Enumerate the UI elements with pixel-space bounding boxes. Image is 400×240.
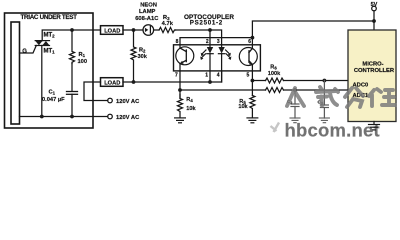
neon lamp 608-A1C: [143, 25, 154, 36]
rail ADC0 from pin5: [252, 80, 265, 82]
svg-text:3: 3: [217, 39, 220, 45]
node 5V: [372, 19, 376, 23]
svg-text:G: G: [22, 49, 27, 55]
svg-text:5: 5: [247, 73, 250, 79]
capacitor C3: [319, 81, 329, 123]
resistor R2 30k: [131, 30, 136, 82]
char ru: [287, 88, 304, 106]
wire gate: [20, 45, 37, 53]
svg-text:608-A1C: 608-A1C: [135, 16, 159, 22]
terminal 120V AC lower: [108, 114, 113, 119]
opto phototransistor right U1b: [239, 48, 257, 66]
LOAD box 1: [101, 26, 124, 35]
svg-text:C1: C1: [49, 90, 56, 96]
wire pin7 down: [179, 71, 181, 99]
node C2 top: [293, 88, 297, 92]
LOAD box 2: [101, 78, 124, 87]
svg-text:10k: 10k: [238, 104, 248, 110]
svg-text:TRIAC UNDER TEST: TRIAC UNDER TEST: [21, 14, 78, 21]
resistor R5 10k: [250, 96, 255, 118]
triac socket inner rectangle: [11, 22, 20, 124]
wire R3 to pin2/pin3 corner: [176, 30, 222, 47]
opto LED 1: [207, 47, 213, 54]
svg-text:R1: R1: [79, 52, 86, 58]
capacitor C1: [67, 91, 78, 93]
char she: [369, 89, 395, 106]
triac Q under test: [35, 41, 49, 46]
rail ADC1 from R4 node: [180, 89, 266, 91]
resistor R6 100k: [266, 78, 284, 83]
svg-text:10k: 10k: [186, 106, 196, 112]
wire lamp to R3: [154, 29, 159, 31]
node MT1 bottom: [40, 115, 44, 119]
rail LED cathodes to LOAD2/R2: [123, 71, 222, 82]
optocoupler box PS2501-2: [174, 45, 261, 71]
svg-text:30k: 30k: [138, 54, 148, 60]
svg-text:100: 100: [78, 59, 88, 65]
wire R6 to ADC0: [284, 80, 349, 82]
svg-text:7: 7: [175, 72, 178, 78]
resistor R7: [266, 88, 284, 93]
5V terminal: [372, 6, 377, 11]
node junction R1 top: [70, 28, 74, 32]
node C3 top: [323, 79, 327, 83]
watermark row 2: nbcom.net: [271, 120, 380, 141]
svg-text:R6: R6: [270, 65, 277, 71]
node junction R2 top: [132, 28, 136, 32]
node pin1: [208, 80, 212, 84]
ground R5: [247, 118, 258, 123]
char gong: [345, 88, 363, 107]
svg-text:6: 6: [248, 39, 251, 45]
resistor R1 100: [70, 30, 75, 64]
ground R4: [175, 118, 186, 123]
wire R1 to C1: [71, 64, 73, 92]
svg-text:R4: R4: [186, 97, 193, 103]
svg-text:MICRO-: MICRO-: [362, 62, 383, 68]
watermark row 1: CJK characters approximated with strokes: [287, 87, 395, 107]
wire AC1 to LOAD2: [84, 82, 108, 101]
svg-text:CONTROLLER: CONTROLLER: [354, 68, 395, 74]
wire 5V rail to pin6: [252, 21, 374, 48]
svg-text:1: 1: [205, 72, 208, 78]
svg-text:PS2501-2: PS2501-2: [190, 20, 223, 27]
svg-text:LOAD: LOAD: [104, 29, 120, 35]
wire LOAD1 to lamp: [123, 29, 143, 31]
wire pin5 down with node to R6: [251, 71, 253, 96]
svg-text:NEON: NEON: [140, 2, 157, 8]
opto LED 2: [218, 47, 224, 54]
resistor R3 4.7k: [159, 27, 176, 32]
terminal 120V AC upper: [108, 98, 113, 103]
svg-text:MT1: MT1: [44, 48, 56, 54]
capacitor C2: [290, 90, 300, 123]
svg-text:8: 8: [176, 39, 179, 45]
svg-text:LAMP: LAMP: [139, 9, 156, 15]
svg-text:120V AC: 120V AC: [116, 99, 140, 105]
svg-text:MT2: MT2: [44, 32, 56, 38]
microcontroller box: [348, 30, 396, 122]
char shi: [316, 87, 338, 106]
bottom rail: [20, 116, 108, 118]
wire pin2 down to LED1: [209, 30, 211, 47]
svg-text:4.7k: 4.7k: [162, 21, 174, 27]
pin numbers 8 2 3 6 7 1 4 5: [175, 39, 251, 79]
node R2 bottom: [132, 80, 136, 84]
node pin8/pin6 collector join: [251, 36, 255, 40]
TRIAC UNDER TEST outer box: [5, 13, 94, 128]
svg-text:LOAD: LOAD: [104, 81, 120, 87]
resistor R4 10k: [178, 95, 183, 118]
node C1 bottom: [70, 115, 74, 119]
wire MT1 down: [41, 46, 43, 117]
opto phototransistor left U1a: [176, 47, 194, 65]
wire pin8 collector to pin6: [180, 38, 252, 48]
wire top rail MT2 to LOAD1: [42, 30, 100, 41]
svg-text:4: 4: [217, 72, 220, 78]
svg-text:0.047 µF: 0.047 µF: [42, 97, 65, 103]
svg-text:100k: 100k: [268, 71, 281, 77]
node junction pin2: [208, 28, 212, 32]
wire R7 to ADC1: [284, 89, 349, 91]
svg-text:R2: R2: [139, 48, 146, 54]
ground microcontroller: [373, 122, 375, 125]
node pin7/R4: [178, 88, 182, 92]
svg-text:5V: 5V: [371, 2, 378, 8]
svg-text:hbcom.net: hbcom.net: [285, 120, 380, 141]
svg-text:120V AC: 120V AC: [116, 115, 140, 121]
svg-text:2: 2: [206, 39, 209, 45]
